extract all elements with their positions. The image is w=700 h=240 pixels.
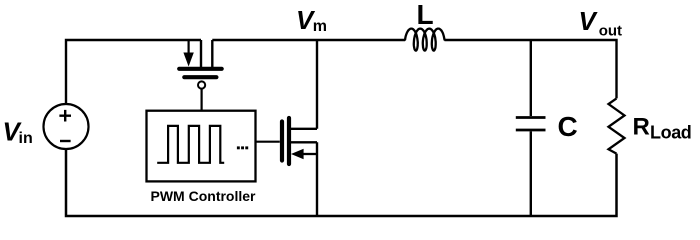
wire top rail left (Vin to Q1) [66,40,201,105]
svg-text:Load: Load [650,123,691,143]
Q1 current arrowhead [183,53,193,67]
resistor R_Load zigzag [609,98,625,153]
PWM controller box [147,111,256,182]
wire Q2 source down to ground rail [316,142,318,216]
wire PWM box to Q2 gate [256,141,280,143]
voltage source V_in [44,104,89,149]
V_in plus sign [59,110,71,122]
svg-text:m: m [313,18,327,35]
Q1 channel bar [179,67,222,71]
wire top rail (inductor to Vout corner) and resistor top lead [445,40,617,98]
Q1 left terminal [200,40,202,67]
svg-text:out: out [599,22,622,39]
Q1 current arrow shaft [188,40,190,55]
Q2 channel bar [287,118,291,164]
svg-text:C: C [558,111,578,142]
Q2 gate bar [280,122,284,161]
svg-text:in: in [19,130,33,147]
Q2 drain line [289,128,317,130]
Q2 body line with arrow [301,153,317,155]
PWM ellipsis dots [237,146,240,149]
Q1 PMOS bubble [198,81,205,88]
Q1 gate bar [184,75,216,79]
V_in minus sign [60,140,71,142]
capacitor C top lead [530,40,532,116]
capacitor C top plate [516,116,546,119]
wire bottom ground rail with Vin bottom lead and resistor bottom lead [66,149,617,217]
Q2 body arrowhead [291,149,304,160]
node Vm vertical wire upper (drain to rail) [316,40,318,129]
capacitor C bottom plate [516,129,546,132]
svg-text:R: R [633,114,650,141]
wire top rail right (Q1 to inductor) [212,39,405,41]
Q1 right terminal [211,40,213,67]
inductor L coil [405,29,444,51]
Q2 source line [289,141,317,143]
PWM square wave [157,126,224,163]
wire Q1 gate to PWM box [201,89,203,111]
svg-text:PWM Controller: PWM Controller [151,188,257,204]
svg-text:V: V [579,6,599,36]
svg-text:L: L [417,0,434,30]
capacitor C bottom lead [530,131,532,216]
